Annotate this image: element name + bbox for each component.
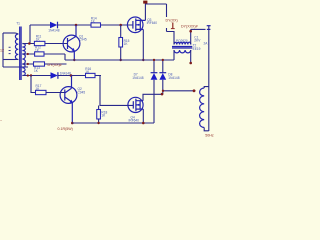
wire input top stub xyxy=(3,32,16,34)
capacitor C1 xyxy=(207,25,211,27)
diode D7 xyxy=(151,60,158,123)
wire tap2 row xyxy=(22,53,65,55)
node junction output corner xyxy=(162,90,164,92)
diode D2 xyxy=(51,72,58,79)
node junction Q4 source xyxy=(142,122,145,125)
resistor R18 gate pulldown xyxy=(98,106,100,124)
svg-text:12: 12 xyxy=(0,49,4,53)
svg-text:1N4148: 1N4148 xyxy=(132,76,143,80)
resistor R12 xyxy=(35,52,44,56)
svg-text:IRF640: IRF640 xyxy=(129,119,140,123)
node junction tap4 xyxy=(30,74,32,76)
wire Q4 drain up to rail xyxy=(143,94,163,100)
svg-text:0.1R(5W): 0.1R(5W) xyxy=(58,127,73,131)
svg-text:PQ2620: PQ2620 xyxy=(176,39,188,43)
node junction T2 top-right xyxy=(189,30,192,33)
wire Q3 source down xyxy=(142,29,144,60)
svg-text:1N4148: 1N4148 xyxy=(48,28,59,32)
node junction R15 bottom xyxy=(120,59,122,61)
wire mid rail xyxy=(65,59,174,61)
wire input bottom xyxy=(3,66,28,68)
wire right vertical xyxy=(208,26,210,131)
net label DY stub red xyxy=(166,4,168,17)
resistor R16 xyxy=(86,73,96,77)
diode D8 xyxy=(159,60,166,94)
wire left input vertical xyxy=(2,33,4,67)
node junction tap1 riser xyxy=(28,42,31,45)
wire tap4 row xyxy=(22,75,50,77)
svg-text:~: ~ xyxy=(0,118,2,122)
wire primary bottom lead xyxy=(3,59,16,61)
wire coil bottom lead xyxy=(204,128,209,131)
wire tap1 riser to top rail xyxy=(29,25,31,44)
diode D1 xyxy=(50,22,57,29)
wire top rail xyxy=(30,24,133,26)
wire tap1 to R11 xyxy=(22,43,67,45)
wire tap4 drop to Q2 base row xyxy=(31,76,36,93)
inductor output coil xyxy=(200,88,205,128)
transformer T1 secondary winding S1 xyxy=(22,44,25,55)
svg-text:50Hz: 50Hz xyxy=(205,134,214,138)
T2 secondary winding xyxy=(174,50,191,53)
node junction Q1 collector xyxy=(75,24,78,27)
node tap4 dot xyxy=(27,74,29,76)
svg-text:2KV: 2KV xyxy=(194,39,201,43)
node tap3 dot xyxy=(27,63,29,65)
transformer T1 secondary winding S2 xyxy=(22,54,25,64)
wire cap row xyxy=(191,28,206,30)
wire bottom rail xyxy=(72,122,154,124)
node junction T2 bottom-right xyxy=(189,62,192,65)
wire T2 top-right lead xyxy=(190,29,192,44)
svg-text:DY(XX)#: DY(XX)# xyxy=(48,63,62,67)
transformer T2 xyxy=(172,42,192,53)
svg-text:C945: C945 xyxy=(78,91,86,95)
node junction Q4 drain wire xyxy=(161,93,164,96)
mosfet Q4 xyxy=(128,97,143,112)
node junction Q2 collector xyxy=(70,74,73,77)
wire Q2 collector row xyxy=(58,75,101,77)
resistor R15 xyxy=(119,38,123,48)
node junction D7 top xyxy=(153,59,155,61)
node junction output coil xyxy=(193,89,196,92)
wire output row xyxy=(163,90,196,92)
node junction Q1 emitter on rail xyxy=(73,59,75,61)
transformer T1 core xyxy=(20,27,21,81)
T2 core xyxy=(172,47,192,49)
node junction Q3 source xyxy=(142,59,144,61)
svg-text:DY(XXX)#: DY(XXX)# xyxy=(181,24,198,28)
node junction D8 top xyxy=(162,59,164,61)
wire T2 bottom-left lead to rail xyxy=(173,50,175,60)
svg-text:EE19: EE19 xyxy=(193,47,201,51)
label +310V red bar xyxy=(143,1,147,4)
node junction gate divider xyxy=(119,24,122,27)
resistor R13 xyxy=(34,62,45,66)
transistor Q2 xyxy=(60,76,77,124)
mosfet Q3 xyxy=(127,17,145,33)
wire tap2 step down xyxy=(64,54,66,60)
resistor R14 top xyxy=(91,23,101,27)
svg-text:1N4148: 1N4148 xyxy=(168,76,179,80)
transformer T1 primary winding xyxy=(15,34,18,60)
svg-text:T1: T1 xyxy=(16,21,20,25)
wire tap3 row xyxy=(22,63,66,65)
resistor R11 xyxy=(34,41,45,45)
wire T2 bottom-right lead down xyxy=(190,50,192,63)
T2 primary winding xyxy=(174,42,191,44)
svg-text:IRF640: IRF640 xyxy=(147,21,158,25)
svg-text:C945: C945 xyxy=(79,38,87,42)
wire Q2 base xyxy=(46,92,65,94)
wire corner down to Q4 gate row xyxy=(100,76,133,106)
wire Q3 drain up xyxy=(145,4,166,20)
svg-text:DY(XX): DY(XX) xyxy=(166,18,178,22)
node tap2 dot xyxy=(27,53,29,55)
wire R15 vertical xyxy=(120,25,122,60)
wire coil top lead xyxy=(204,87,209,88)
node junction R18 bottom xyxy=(97,122,99,124)
transformer T1 pin marks xyxy=(9,47,11,54)
wire T2 top-left lead xyxy=(167,28,175,45)
transistor Q1 xyxy=(63,25,80,60)
wire Q4 source down xyxy=(142,109,144,123)
resistor R17 Q2 base xyxy=(36,90,47,94)
node junction Q2 emitter bottom xyxy=(71,122,74,125)
transformer T1 secondary winding S3 xyxy=(22,64,25,76)
